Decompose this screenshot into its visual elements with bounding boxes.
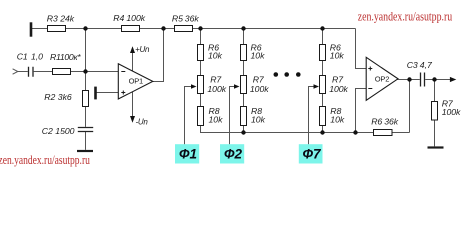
svg-text:4,7: 4,7 [420,60,433,70]
svg-text:36k: 36k [185,14,200,24]
svg-text:1500: 1500 [55,126,74,136]
svg-text:100k: 100k [126,13,145,23]
svg-text:R4: R4 [113,13,124,23]
svg-text:Ф7: Ф7 [303,147,323,162]
svg-text:R1100к*: R1100к* [50,52,81,62]
svg-text:-Un: -Un [136,117,149,126]
svg-text:10k: 10k [330,51,345,61]
svg-text:100k: 100k [207,84,226,94]
svg-text:Ф2: Ф2 [224,147,243,162]
svg-text:zen.yandex.ru/asutpp.ru: zen.yandex.ru/asutpp.ru [0,153,90,167]
svg-text:36k: 36k [384,117,399,127]
svg-text:C1: C1 [17,52,28,62]
svg-text:10k: 10k [330,114,345,124]
svg-text:10k: 10k [251,51,266,61]
svg-text:100k: 100k [329,84,348,94]
svg-text:10k: 10k [209,114,224,124]
svg-text:R5: R5 [172,14,183,24]
svg-text:C3: C3 [407,60,418,70]
svg-text:24k: 24k [59,14,75,24]
svg-text:OP2: OP2 [375,74,389,83]
svg-text:1,0: 1,0 [31,52,43,62]
svg-text:R3: R3 [47,14,58,24]
svg-text:R2: R2 [44,92,55,102]
svg-text:10k: 10k [208,51,223,61]
svg-text:Ф1: Ф1 [179,147,197,162]
svg-text:100k: 100k [250,84,269,94]
svg-text:zen.yandex.ru/asutpp.ru: zen.yandex.ru/asutpp.ru [358,10,453,24]
svg-text:+Un: +Un [135,45,150,54]
svg-text:R6: R6 [371,117,382,127]
svg-text:OP1: OP1 [129,76,143,85]
svg-text:C2: C2 [42,126,53,136]
svg-text:10k: 10k [251,114,266,124]
svg-text:3k6: 3k6 [58,92,72,102]
svg-text:100k: 100k [442,107,461,117]
